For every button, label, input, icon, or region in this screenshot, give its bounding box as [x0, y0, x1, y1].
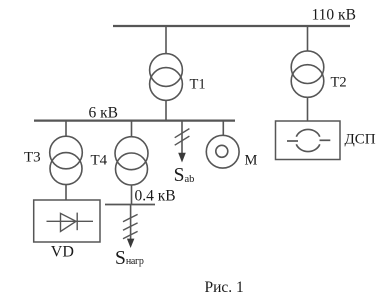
box DSP furnace — [276, 121, 341, 160]
svg-text:6 кВ: 6 кВ — [89, 104, 119, 121]
wire bus6 to Sab feeder — [181, 121, 183, 154]
wire T4 to bus04 — [131, 185, 133, 205]
wire bus6 to motor M — [222, 121, 224, 135]
wire bus110 to T2 — [307, 27, 309, 51]
svg-text:Sab: Sab — [174, 165, 195, 186]
svg-text:М: М — [245, 153, 258, 169]
bus 6 kV — [34, 119, 235, 121]
svg-text:Т1: Т1 — [190, 77, 206, 93]
transformer T2 — [291, 51, 324, 97]
wire bus110 to T1 — [165, 27, 167, 54]
svg-text:Т4: Т4 — [91, 153, 108, 169]
wire T3 to VD box — [65, 185, 67, 200]
motor M symbol — [206, 135, 239, 168]
wire bus6 to T4 — [131, 121, 133, 137]
bus 110 kV — [113, 25, 350, 27]
svg-text:Т3: Т3 — [24, 150, 41, 166]
svg-text:VD: VD — [51, 244, 74, 261]
svg-text:110 кВ: 110 кВ — [312, 7, 356, 24]
transformer T4 — [115, 137, 148, 185]
wire T1 to bus6 — [165, 100, 167, 120]
transformer T1 — [150, 54, 183, 101]
wire bus6 to T3 — [65, 121, 67, 136]
diode VD symbol — [47, 213, 94, 232]
svg-text:Т2: Т2 — [331, 75, 347, 91]
box VD rectifier — [34, 200, 100, 242]
svg-text:Sнагр: Sнагр — [115, 248, 144, 269]
feeder Snagr wire — [130, 205, 132, 240]
transformer T3 — [50, 136, 83, 184]
hatch marks Sab — [175, 129, 190, 146]
bus 0.4 kV — [105, 204, 155, 206]
svg-text:Рис. 1: Рис. 1 — [205, 279, 244, 296]
svg-text:ДСП: ДСП — [345, 132, 376, 148]
svg-text:0.4 кВ: 0.4 кВ — [135, 187, 176, 204]
hatch marks Snagr — [123, 214, 138, 238]
wire T2 to DSP box — [307, 97, 309, 121]
arrow head Sab — [178, 153, 186, 163]
arc furnace symbol inside DSP — [287, 129, 330, 151]
arrow head Snagr — [127, 239, 134, 248]
